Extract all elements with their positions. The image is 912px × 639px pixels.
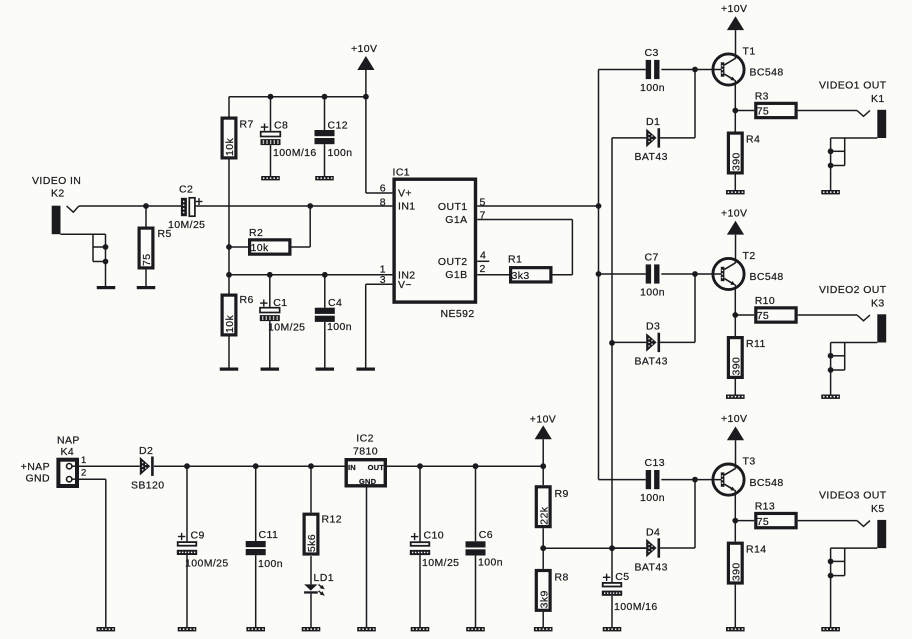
wire R7 top <box>228 97 230 117</box>
junction bus1-C7 <box>596 271 602 277</box>
node label VIDEO3 OUT <box>819 490 887 515</box>
wire K5 ground <box>830 576 832 627</box>
wire R13 left <box>735 520 754 522</box>
wire R8 top <box>542 548 544 569</box>
resistor R4 <box>728 133 760 173</box>
diode D4 BAT43 <box>635 526 668 573</box>
capacitor C9 <box>177 530 229 570</box>
junction R2-IN1 <box>307 203 313 209</box>
svg-text:C5: C5 <box>615 571 629 583</box>
node label NAP <box>57 435 80 459</box>
svg-text:C6: C6 <box>479 529 493 541</box>
wire R11 top <box>734 315 736 336</box>
node label VIDEO IN <box>32 175 81 200</box>
svg-text:IN1: IN1 <box>398 201 416 213</box>
svg-text:OUT2: OUT2 <box>438 256 468 268</box>
ground K4 <box>97 627 116 631</box>
svg-text:7810: 7810 <box>353 446 378 458</box>
wire emitter T3 <box>734 490 736 521</box>
wire R9-R8 <box>542 528 544 548</box>
svg-text:C13: C13 <box>645 457 665 469</box>
svg-text:C12: C12 <box>328 120 348 132</box>
svg-text:K4: K4 <box>61 446 75 458</box>
svg-text:+10V: +10V <box>351 43 377 55</box>
wire K3 sleeve ladder <box>831 343 878 371</box>
power +10V regulator <box>530 414 556 467</box>
capacitor C5 <box>602 571 658 613</box>
junction C9 <box>184 463 190 469</box>
svg-text:+NAP: +NAP <box>21 461 50 473</box>
voltage regulator IC2 7810 <box>346 433 385 487</box>
wire C11 top <box>255 466 257 541</box>
wire D2 to IC2 <box>154 465 345 467</box>
wire D4 feed <box>612 547 646 549</box>
wire VIDEO IN net <box>79 205 393 207</box>
junction rail <box>268 94 369 100</box>
svg-text:100n: 100n <box>640 492 665 504</box>
wire divider to bias bus <box>543 547 612 549</box>
wire R6 bottom <box>228 337 230 368</box>
resistor R3 <box>755 91 796 118</box>
svg-text:R8: R8 <box>555 572 569 584</box>
wire C1 top <box>269 275 271 308</box>
wire C11 bottom <box>255 555 257 627</box>
svg-text:390: 390 <box>731 152 743 171</box>
resistor R10 <box>755 295 796 322</box>
wire C10 top <box>419 466 421 541</box>
svg-text:BC548: BC548 <box>750 67 784 79</box>
transistor T3 BC548 <box>713 456 784 496</box>
svg-text:10M/25: 10M/25 <box>168 219 205 231</box>
svg-text:V+: V+ <box>398 188 412 200</box>
resistor R11 <box>728 338 765 378</box>
svg-text:390: 390 <box>731 562 743 581</box>
wire emitter T1 <box>734 80 736 111</box>
ground R14 <box>726 627 745 631</box>
svg-text:C3: C3 <box>645 47 659 59</box>
node label +NAP GND <box>21 461 50 484</box>
wire C5 bottom <box>611 596 613 627</box>
svg-text:R11: R11 <box>746 338 766 350</box>
svg-text:BC548: BC548 <box>750 271 784 283</box>
svg-text:K5: K5 <box>871 503 885 515</box>
wire C1 bottom <box>269 321 271 367</box>
svg-text:OUT1: OUT1 <box>438 201 468 213</box>
wire OUT1 <box>477 205 598 207</box>
ground K1 <box>821 190 840 194</box>
junction R2 tap <box>226 244 232 250</box>
svg-text:K2: K2 <box>51 188 65 200</box>
capacitor C11 <box>246 529 283 570</box>
junction divider <box>540 545 546 551</box>
svg-text:R3: R3 <box>755 91 769 103</box>
svg-text:IC2: IC2 <box>356 433 374 445</box>
wire R3 left <box>735 110 754 112</box>
svg-text:VIDEO1 OUT: VIDEO1 OUT <box>819 80 887 92</box>
ground C4 <box>316 368 335 371</box>
svg-text:BAT43: BAT43 <box>635 151 668 163</box>
connector K5 jack <box>857 520 886 548</box>
resistor R8 <box>536 571 568 611</box>
capacitor C3 <box>640 47 665 94</box>
svg-text:100n: 100n <box>640 287 665 299</box>
svg-text:C11: C11 <box>259 529 279 541</box>
wire OUT2 stub pin 4 <box>477 260 489 262</box>
wire R4 bottom <box>734 175 736 191</box>
power +10V T1 <box>721 3 747 59</box>
connector K4 <box>58 455 86 486</box>
svg-text:2: 2 <box>480 263 486 275</box>
wire C13 to base <box>661 479 721 481</box>
svg-text:VIDEO IN: VIDEO IN <box>32 175 81 187</box>
wire V- stub <box>366 284 393 367</box>
op-amp IC1 NE592 <box>380 167 487 321</box>
junction base node T1 <box>692 67 698 73</box>
capacitor C7 <box>640 252 665 299</box>
wire R10 left <box>735 314 754 316</box>
ground C5 <box>603 627 622 631</box>
wire R3 right <box>798 110 857 112</box>
wire R8 bottom <box>542 612 544 627</box>
svg-text:R2: R2 <box>249 227 263 239</box>
transistor T1 BC548 <box>713 46 784 86</box>
svg-text:75: 75 <box>141 254 153 266</box>
svg-text:BC548: BC548 <box>750 477 784 489</box>
junction emitter T3 <box>732 518 738 524</box>
svg-text:G1A: G1A <box>445 214 467 226</box>
wire C6 top <box>475 466 477 541</box>
ground R5 <box>137 286 156 289</box>
svg-text:100n: 100n <box>640 82 665 94</box>
ground C12 <box>315 176 334 180</box>
resistor R7 <box>222 118 254 158</box>
svg-text:IN: IN <box>348 463 356 472</box>
wire C10 bottom <box>419 555 421 627</box>
wire R5 top <box>145 206 147 227</box>
svg-text:100n: 100n <box>258 558 283 570</box>
capacitor C13 <box>640 457 665 504</box>
wire LD1 bottom <box>310 594 312 627</box>
connector K1 jack <box>857 110 886 138</box>
svg-text:1: 1 <box>81 455 87 466</box>
svg-text:G1B: G1B <box>445 269 467 281</box>
svg-text:K1: K1 <box>871 93 885 105</box>
svg-text:+10V: +10V <box>530 414 556 426</box>
svg-text:R9: R9 <box>555 488 569 500</box>
svg-text:+10V: +10V <box>721 208 747 220</box>
ground R11 <box>726 395 745 399</box>
svg-text:+10V: +10V <box>721 413 747 425</box>
connector K3 jack <box>857 314 886 342</box>
svg-text:22k: 22k <box>538 506 550 524</box>
wire C6 bottom <box>475 556 477 628</box>
svg-text:100n: 100n <box>328 147 353 159</box>
ground C9 <box>178 627 197 631</box>
wire collector T1 <box>735 55 737 59</box>
connector K2 jack <box>52 206 79 235</box>
wire D4 anode <box>612 547 646 549</box>
power +10V rail top <box>351 43 377 193</box>
wire R7-R6 column <box>228 160 230 294</box>
svg-text:C2: C2 <box>179 184 193 196</box>
svg-text:75: 75 <box>757 516 769 528</box>
svg-text:D1: D1 <box>646 116 660 128</box>
svg-text:C9: C9 <box>191 530 205 542</box>
ground C1 <box>261 368 280 371</box>
svg-text:C7: C7 <box>645 252 659 264</box>
svg-text:R7: R7 <box>240 119 254 131</box>
wire collector T3 <box>735 465 737 469</box>
ground R4 <box>726 190 745 194</box>
wire C4 top <box>324 275 326 308</box>
capacitor C12 <box>315 120 353 159</box>
svg-text:100n: 100n <box>327 321 352 333</box>
transistor T2 BC548 <box>713 250 784 290</box>
svg-text:C10: C10 <box>424 530 444 542</box>
svg-text:10k: 10k <box>224 315 236 333</box>
wire +10V top rail <box>229 96 366 98</box>
svg-text:NE592: NE592 <box>441 308 475 320</box>
junction emitter T1 <box>732 108 738 114</box>
junction K3 contacts <box>828 353 834 373</box>
junction R12 <box>308 463 314 469</box>
svg-text:SB120: SB120 <box>131 479 165 491</box>
capacitor C6 <box>466 529 503 569</box>
svg-text:D3: D3 <box>646 321 660 333</box>
ground LD1 <box>302 627 321 631</box>
power +10V T3 <box>721 413 747 469</box>
resistor R2 <box>249 227 290 254</box>
svg-text:T2: T2 <box>743 250 756 262</box>
svg-text:C1: C1 <box>273 297 287 309</box>
wire D1 anode <box>612 137 646 139</box>
wire R14 bottom <box>734 585 736 627</box>
ground V- <box>356 368 375 371</box>
svg-text:R13: R13 <box>755 501 775 513</box>
resistor R5 <box>139 228 172 268</box>
junction C11 <box>253 463 259 469</box>
wire C12 bottom <box>324 144 326 176</box>
wire C8 bottom <box>270 145 272 176</box>
led LD1 <box>304 572 334 597</box>
wire K2 sleeve ladder <box>61 234 106 286</box>
svg-text:C4: C4 <box>328 297 342 309</box>
svg-text:GND: GND <box>359 477 377 486</box>
node label VIDEO2 OUT <box>819 284 887 309</box>
resistor R12 <box>304 514 342 555</box>
wire C7 to base <box>661 273 721 275</box>
ground C8 <box>261 176 280 180</box>
wire K3 ground <box>830 370 832 395</box>
junction R9 top <box>540 463 546 469</box>
svg-text:10M/25: 10M/25 <box>268 322 305 334</box>
svg-text:C8: C8 <box>274 120 288 132</box>
svg-text:T3: T3 <box>743 456 756 468</box>
svg-text:OUT: OUT <box>368 463 385 472</box>
svg-text:T1: T1 <box>743 46 756 58</box>
svg-text:VIDEO2 OUT: VIDEO2 OUT <box>819 284 887 296</box>
svg-text:75: 75 <box>757 106 769 118</box>
wire K1 sleeve ladder <box>831 138 878 166</box>
wire C9 top <box>186 466 188 541</box>
svg-text:R12: R12 <box>322 514 342 526</box>
wire C7 left <box>599 273 646 275</box>
svg-text:BAT43: BAT43 <box>635 356 668 368</box>
svg-text:R1: R1 <box>508 254 522 266</box>
wire K1 ground <box>830 166 832 191</box>
wire C12 top <box>324 97 326 130</box>
wire R11 bottom <box>734 379 736 395</box>
svg-text:3k3: 3k3 <box>512 270 530 282</box>
diode D2 SB120 <box>131 445 165 491</box>
svg-text:K3: K3 <box>871 297 885 309</box>
wire V+ stub <box>366 192 393 194</box>
capacitor C1 <box>260 297 306 334</box>
power +10V T2 <box>721 208 747 264</box>
svg-text:R10: R10 <box>755 295 775 307</box>
wire D4 cathode riser <box>660 480 695 548</box>
svg-text:NAP: NAP <box>57 435 80 447</box>
wire R5 bottom <box>145 270 147 287</box>
wire IN2 net <box>229 274 392 276</box>
svg-text:100M/25: 100M/25 <box>185 558 229 570</box>
wire C3 to base <box>661 69 721 71</box>
wire C9 bottom <box>186 555 188 627</box>
wire R4 top <box>734 111 736 132</box>
svg-text:D2: D2 <box>139 445 153 457</box>
resistor R1 <box>508 254 551 283</box>
diode D1 BAT43 <box>635 116 668 163</box>
svg-text:5k6: 5k6 <box>306 534 318 552</box>
svg-text:2: 2 <box>81 468 87 479</box>
junction IN2 node <box>226 272 232 278</box>
svg-text:100M/16: 100M/16 <box>273 147 317 159</box>
junction C6 <box>473 463 479 469</box>
svg-text:R4: R4 <box>746 134 760 146</box>
node label VIDEO1 OUT <box>819 80 887 105</box>
ground C11 <box>246 627 265 631</box>
wire C5 top <box>611 548 613 582</box>
svg-text:8: 8 <box>380 196 386 208</box>
ground R8 <box>534 627 553 631</box>
wire D1 cathode riser <box>660 70 695 138</box>
junction C1 <box>267 272 273 278</box>
resistor R13 <box>755 501 796 528</box>
svg-text:10k: 10k <box>251 242 269 254</box>
svg-text:6: 6 <box>380 182 386 194</box>
wire C8 top <box>270 97 272 132</box>
svg-text:75: 75 <box>757 310 769 322</box>
wire R12-LD1 <box>310 556 312 584</box>
svg-text:10M/25: 10M/25 <box>422 557 459 569</box>
capacitor C2 <box>168 184 205 231</box>
ground K5 <box>821 627 840 631</box>
wire IC2 out rail <box>387 465 543 467</box>
junction emitter T2 <box>732 312 738 318</box>
svg-text:390: 390 <box>731 357 743 376</box>
junction base node T2 <box>692 271 698 277</box>
wire C4 bottom <box>324 322 326 368</box>
junction OUT1 bus <box>596 203 602 209</box>
wire D3 cathode riser <box>660 274 695 342</box>
svg-text:D4: D4 <box>646 526 660 538</box>
junction base node T3 <box>692 477 698 483</box>
svg-text:R6: R6 <box>240 294 254 306</box>
wire R12 top <box>310 466 312 512</box>
capacitor C8 <box>261 120 317 159</box>
wire R14 top <box>734 521 736 542</box>
wire C13 left <box>599 479 646 481</box>
wire R13 right <box>798 520 857 522</box>
wire R9 top <box>542 466 544 485</box>
ground K3 <box>821 395 840 399</box>
svg-text:IC1: IC1 <box>393 167 411 179</box>
junction K1 contacts <box>828 148 834 168</box>
svg-text:V−: V− <box>398 279 412 291</box>
svg-text:3: 3 <box>380 274 386 286</box>
junction bus2-D4 <box>609 545 615 551</box>
wire bias bus <box>611 138 613 548</box>
junction bus2-D3 <box>609 340 615 346</box>
wire R2 right riser <box>292 206 311 247</box>
ground C6 <box>466 627 485 631</box>
wire G1B <box>477 274 509 276</box>
wire K5 sleeve ladder <box>831 548 878 576</box>
junction C10 <box>417 463 423 469</box>
wire R2 left <box>229 246 248 248</box>
resistor R14 <box>728 543 766 583</box>
wire K4 pin2 ground run <box>79 479 106 627</box>
svg-text:100n: 100n <box>478 557 503 569</box>
wire K4 pin1 <box>79 465 140 467</box>
wire G1A loop <box>477 220 572 275</box>
diode D3 BAT43 <box>635 321 668 368</box>
ground C10 <box>411 627 430 631</box>
svg-text:R14: R14 <box>746 544 766 556</box>
svg-text:LD1: LD1 <box>314 572 334 584</box>
capacitor C10 <box>410 530 460 570</box>
wire emitter T2 <box>734 284 736 315</box>
svg-text:VIDEO3 OUT: VIDEO3 OUT <box>819 490 887 502</box>
wire IC2 gnd <box>366 488 368 628</box>
svg-text:10k: 10k <box>224 138 236 156</box>
ground IC2 <box>357 627 376 631</box>
wire R10 right <box>798 314 857 316</box>
resistor R9 <box>536 487 568 527</box>
capacitor C4 <box>315 297 352 333</box>
junction C4 <box>322 272 328 278</box>
svg-text:4: 4 <box>480 250 486 262</box>
resistor R6 <box>222 294 254 335</box>
wire D3 anode <box>612 341 646 343</box>
svg-text:100M/16: 100M/16 <box>614 601 658 613</box>
junction R5 tap <box>143 203 149 209</box>
junction K5 contacts <box>828 559 834 579</box>
svg-text:+10V: +10V <box>721 3 747 15</box>
svg-text:3k9: 3k9 <box>538 590 550 608</box>
wire collector T2 <box>735 259 737 263</box>
wire OUT1 bus <box>598 70 600 480</box>
wire C3 left <box>599 69 646 71</box>
ground K2 <box>97 286 116 289</box>
junction K2 contacts <box>103 244 109 264</box>
svg-text:GND: GND <box>25 472 50 484</box>
ground R6 <box>220 368 239 371</box>
svg-text:BAT43: BAT43 <box>635 561 668 573</box>
